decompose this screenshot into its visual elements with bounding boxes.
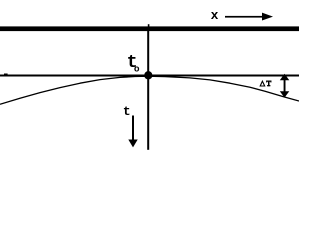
x-axis arrow: [225, 13, 273, 21]
svg-text:o: o: [134, 63, 140, 74]
label t_o: [127, 53, 140, 74]
initial temperature line (thin horizontal line): [0, 75, 299, 77]
t-axis vertical line: [147, 31, 149, 150]
node: dot at t_o intersection: [144, 71, 152, 79]
svg-text:x: x: [211, 8, 219, 23]
t-axis downward arrow: [128, 116, 137, 148]
small bump on thin line left end: [4, 74, 8, 76]
temperature distribution curve: [0, 76, 299, 104]
stub above wall at axis: [148, 24, 150, 26]
label delta-T: [260, 81, 271, 87]
wall surface (thick horizontal line): [0, 26, 299, 31]
svg-text:t: t: [123, 104, 131, 119]
delta-T double arrow: [280, 74, 290, 98]
